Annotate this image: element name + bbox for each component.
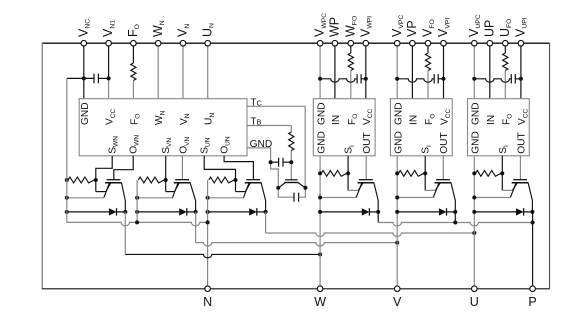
svg-text:WP: WP xyxy=(328,17,342,37)
wire OUN pin to gate xyxy=(224,156,253,180)
terminal P xyxy=(530,286,536,292)
wire SWN pin to gate resistor xyxy=(96,156,112,180)
resistor R7 (TB line) xyxy=(289,132,294,151)
junction U output xyxy=(472,231,476,235)
transistor QWN (IGBT) xyxy=(104,180,126,212)
resistor on VFO line xyxy=(427,46,429,53)
wire SI pin down (V) xyxy=(424,156,426,174)
wire VP to HVIC IN xyxy=(411,46,413,99)
resistor on FO line (left group) xyxy=(132,46,134,63)
op-amp U2 HVIC (W-phase driver) box xyxy=(313,99,375,156)
terminal VFO xyxy=(425,40,431,46)
wire OUT pin to gate (V) xyxy=(442,156,444,180)
junction Q7 emitter node xyxy=(276,186,280,190)
terminal U xyxy=(472,286,478,292)
junction W output xyxy=(318,252,322,256)
junction P bus V collector xyxy=(453,221,457,225)
terminal N xyxy=(205,286,211,292)
svg-text:U: U xyxy=(470,295,479,309)
terminal FO xyxy=(131,40,137,46)
junction resistor-SWN xyxy=(94,178,98,182)
wire UN pin line xyxy=(207,46,209,99)
wire U output (low side collector) xyxy=(265,212,267,233)
resistor RWP (emitter sense) xyxy=(321,171,346,177)
junction VNC-C1 xyxy=(82,76,86,80)
svg-text:GND: GND xyxy=(316,102,327,125)
junction P bus P line xyxy=(531,221,535,225)
wire WP to HVIC IN xyxy=(334,46,336,99)
terminal W xyxy=(317,286,323,292)
junction resistor-XL1 xyxy=(65,178,69,182)
capacitor C1 (VN1-VNC filter) xyxy=(67,74,109,84)
wire GND (LVIC right) xyxy=(247,148,278,188)
diode DUN (freewheel) xyxy=(208,211,250,213)
junction resistor-GND VP xyxy=(395,171,399,175)
svg-text:OUT: OUT xyxy=(516,132,527,154)
wire SI sense drop (U) xyxy=(501,173,503,190)
junction emitter WN xyxy=(65,196,69,200)
capacitor CU (VPI-VPC filter) xyxy=(474,74,521,83)
wire XL3 vertical / N line xyxy=(207,180,209,286)
terminal VVPI xyxy=(441,40,447,46)
junction diode cathode WN xyxy=(123,210,127,214)
wire SI pin down (W) xyxy=(347,156,349,174)
junction diode anode WN xyxy=(65,210,69,214)
junction diode cathode WP xyxy=(376,210,380,214)
wire emitter-power xyxy=(67,197,104,199)
junction resistor-GND UP xyxy=(472,171,476,175)
wire XL1 vertical (VNC net) xyxy=(66,78,68,222)
junction resistor-SUN xyxy=(234,178,238,182)
diode DVN (freewheel) xyxy=(137,211,179,213)
svg-text:GND: GND xyxy=(393,131,404,154)
junction emitter UN xyxy=(206,196,210,200)
wire OUT pin to gate (W) xyxy=(365,156,367,180)
diode DWP (freewheel) xyxy=(320,211,362,213)
terminal VWPC xyxy=(317,40,323,46)
terminal VVPC xyxy=(394,40,400,46)
capacitor C6 (across Q7) xyxy=(278,188,305,202)
terminal WP xyxy=(332,40,338,46)
wire XL2 vertical xyxy=(136,180,138,222)
wire TB xyxy=(247,125,291,127)
wire SI sense drop (V) xyxy=(424,173,426,190)
svg-text:GND: GND xyxy=(316,131,327,154)
wire OWN pin to gate xyxy=(114,156,133,180)
wire SUN pin to gate resistor xyxy=(204,156,235,180)
capacitor CW (VPI-VPC filter) xyxy=(320,74,366,83)
junction VVPI-cap xyxy=(442,77,446,81)
wire VNC to LVIC GND pin xyxy=(83,46,85,99)
terminal WN xyxy=(155,40,161,46)
wire VVPI to HVIC VCC xyxy=(443,46,445,99)
package outline (module boundary) xyxy=(42,43,549,289)
transistor QUN (IGBT) xyxy=(243,180,265,212)
svg-text:OUT: OUT xyxy=(439,132,450,154)
junction emitter WP xyxy=(318,196,322,200)
diode DVP (freewheel) xyxy=(397,211,439,213)
junction VWPC-cap xyxy=(318,77,322,81)
junction resistor-SI VP xyxy=(423,171,427,175)
wire P bus (high side collectors) xyxy=(377,212,379,223)
wire emitter-power xyxy=(208,197,244,199)
svg-text:VP: VP xyxy=(405,20,419,37)
transistor QVN (IGBT) xyxy=(172,180,195,212)
junction Q7 collector node xyxy=(303,186,307,190)
svg-text:GND: GND xyxy=(393,102,404,125)
junction emitter VN xyxy=(135,196,139,200)
wire SI pin down (U) xyxy=(501,156,503,174)
junction emitter VP xyxy=(395,196,399,200)
diode DWN (freewheel) xyxy=(67,211,109,213)
terminal WFO xyxy=(348,40,354,46)
wire TB to gate xyxy=(290,151,292,163)
svg-text:IN: IN xyxy=(486,115,497,125)
junction GND-C5 xyxy=(269,160,273,164)
wire emitter-sense xyxy=(425,189,435,191)
svg-text:GND: GND xyxy=(471,102,482,125)
wire WN pin line xyxy=(157,46,159,99)
svg-text:W: W xyxy=(314,295,326,309)
resistor on WFO line xyxy=(350,46,352,53)
junction diode cathode VN xyxy=(194,210,198,214)
junction diode anode VP xyxy=(395,210,399,214)
wire HVIC GND pin down (V) xyxy=(396,156,398,286)
capacitor C5 (TB-GND) xyxy=(271,158,292,167)
junction VN1-C1 xyxy=(107,76,111,80)
wire VWPC to HVIC GND xyxy=(319,46,321,99)
svg-text:UP: UP xyxy=(482,20,496,37)
junction VWPI-cap xyxy=(364,77,368,81)
wire HVIC GND pin down (W) xyxy=(319,156,321,286)
wire W output (low side collector) xyxy=(124,212,126,255)
junction diode cathode UP xyxy=(530,210,534,214)
resistor RVN (emitter sense) xyxy=(138,177,164,183)
junction resistor-SVN xyxy=(164,178,168,182)
junction resistor-SI UP xyxy=(500,171,504,175)
wire emitter-power xyxy=(320,197,356,199)
junction diode cathode VP xyxy=(453,210,457,214)
wire SVN sense drop xyxy=(165,180,167,192)
wire VN1 to LVIC VCC pin xyxy=(108,46,110,79)
transistor QVP (IGBT) xyxy=(433,180,455,212)
junction TB-C5 xyxy=(289,160,293,164)
svg-text:IN: IN xyxy=(409,115,420,125)
op-amp U1 LVIC (N-side driver IC) box xyxy=(79,99,247,156)
terminal VUPI xyxy=(518,40,524,46)
wire emitter-sense xyxy=(348,189,358,191)
wire SWN sense drop xyxy=(95,180,97,192)
wire HVIC GND pin down (U) xyxy=(473,156,475,286)
transistor Q7 (protection) xyxy=(279,180,306,188)
terminal VWPI xyxy=(363,40,369,46)
op-amp U3 HVIC (V-phase driver) box xyxy=(390,99,452,156)
svg-text:V: V xyxy=(393,295,402,309)
junction resistor-GND WP xyxy=(318,171,322,175)
junction diode anode VN xyxy=(135,210,139,214)
junction emitter UP xyxy=(472,196,476,200)
transistor QUP (IGBT) xyxy=(510,180,532,212)
junction diode cathode UN xyxy=(264,210,268,214)
wire SUN sense drop xyxy=(235,180,237,192)
junction N bus XL2 xyxy=(135,220,139,224)
junction diode anode UN xyxy=(206,210,210,214)
wire emitter-sense xyxy=(502,189,512,191)
resistor RVP (emitter sense) xyxy=(398,171,423,177)
junction diode anode UP xyxy=(472,210,476,214)
junction VUPI-cap xyxy=(519,77,523,81)
junction resistor-SI WP xyxy=(346,171,350,175)
svg-text:P: P xyxy=(528,295,536,309)
op-amp U4 HVIC (U-phase driver) box xyxy=(468,99,530,156)
terminal VN xyxy=(180,40,186,46)
wire emitter-sense xyxy=(166,191,175,193)
wire emitter-power xyxy=(137,197,172,199)
wire VUPC to HVIC GND xyxy=(473,46,475,99)
wire V output (low side collector) xyxy=(195,212,197,243)
terminal VP xyxy=(410,40,416,46)
svg-text:IN: IN xyxy=(331,115,342,125)
resistor RUP (emitter sense) xyxy=(476,171,501,177)
wire N common bus xyxy=(67,222,208,225)
wire OUT pin to gate (U) xyxy=(519,156,521,180)
wire VWPI to HVIC VCC xyxy=(365,46,367,99)
wire VN pin line xyxy=(182,46,184,99)
svg-text:OUT: OUT xyxy=(362,132,373,154)
junction VVPC-cap xyxy=(395,77,399,81)
junction N bus XL3 xyxy=(206,220,210,224)
wire VVPC to HVIC GND xyxy=(396,46,398,99)
wire VUPI to HVIC VCC xyxy=(520,46,522,99)
wire UP to HVIC IN xyxy=(489,46,491,99)
terminal V xyxy=(394,286,400,292)
wire P line down to terminal xyxy=(532,212,534,286)
junction V output xyxy=(395,241,399,245)
wire emitter-power xyxy=(397,197,433,199)
svg-text:GND: GND xyxy=(471,131,482,154)
diode DUP (freewheel) xyxy=(474,211,516,213)
wire SI sense drop (W) xyxy=(347,173,349,190)
capacitor CV (VPI-VPC filter) xyxy=(397,74,443,83)
transistor QWP (IGBT) xyxy=(356,180,378,212)
terminal VUPC xyxy=(472,40,478,46)
resistor on UFO line xyxy=(504,46,506,53)
wire SVN pin to gate resistor xyxy=(165,156,167,180)
terminal UFO xyxy=(503,40,509,46)
wire TC xyxy=(247,106,305,188)
terminal VNC xyxy=(81,40,87,46)
terminal VN1 xyxy=(106,40,112,46)
terminal UP xyxy=(487,40,493,46)
junction diode anode WP xyxy=(318,210,322,214)
resistor RWN (emitter sense) xyxy=(68,177,94,183)
resistor RUN (emitter sense) xyxy=(209,177,234,183)
junction VUPC-cap xyxy=(472,77,476,81)
wire emitter-power xyxy=(474,197,510,199)
wire emitter-sense xyxy=(236,191,246,193)
svg-text:N: N xyxy=(203,295,212,309)
terminal UN xyxy=(205,40,211,46)
svg-text:GND: GND xyxy=(80,102,91,125)
wire emitter-sense xyxy=(96,191,106,193)
wire OVN pin to gate xyxy=(181,156,183,180)
